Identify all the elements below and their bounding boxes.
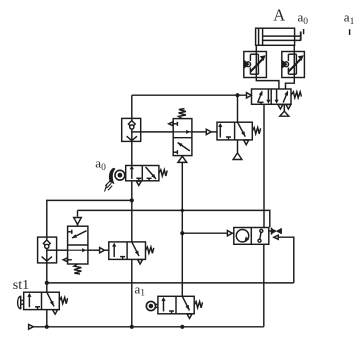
valve V4 (3/2): [217, 122, 252, 140]
wire riser a0 valve to junction: [131, 181, 133, 242]
wire box1 to valve V1: [141, 131, 174, 133]
wire riser box1 to a0 valve: [131, 141, 133, 165]
spring valve V4: [252, 128, 260, 134]
exhaust triangle valve U5 left: [278, 105, 283, 110]
pilot triangle valve V2 (top): [74, 218, 82, 225]
pilot triangle valve V4: [206, 129, 211, 134]
node junction bottom rail x131: [130, 325, 134, 329]
wire bottom rail: [33, 326, 263, 328]
svg-text:a1: a1: [344, 10, 355, 27]
spring valve V3: [146, 247, 154, 253]
quick exhaust valve box1: [122, 118, 141, 141]
node junction pilot/V4: [235, 93, 239, 97]
wire valve U5 bottom to counter: [263, 104, 265, 227]
exhaust triangle valve a1: [187, 314, 192, 318]
wire rail y283: [47, 282, 294, 284]
supply triangle valve V1: [178, 156, 187, 162]
supply triangle valve V4: [233, 153, 242, 160]
wire V2 output to V3 pilot: [88, 249, 100, 251]
exhaust triangle valve V3: [138, 260, 143, 264]
wire st1 bottom to rail: [46, 310, 48, 327]
node junction rail283 / left riser: [45, 281, 49, 285]
pilot triangle counter right: [274, 235, 278, 239]
supply triangle valve U5: [280, 104, 289, 116]
node junction riser x182 / counter pilot: [180, 231, 184, 235]
svg-text:st1: st1: [13, 278, 29, 293]
wire riser V1 supply down to a1: [181, 162, 183, 296]
wire left FCV to valve (jog): [256, 78, 279, 90]
wire to counter pilot: [182, 232, 227, 234]
wire junction down to valve V4: [237, 95, 239, 122]
wire V4 to supply triangle: [237, 140, 239, 153]
wire V1 output to V4 pilot: [192, 131, 206, 133]
svg-text:a0: a0: [298, 10, 309, 27]
wire cylinder cap port: [255, 45, 257, 51]
manual override bowtie counter: [269, 228, 281, 235]
exhaust triangle valve st1: [53, 310, 58, 314]
exhaust triangle valve U5 right: [286, 105, 291, 110]
wire counter right pilot loop: [278, 237, 294, 283]
exhaust triangle valve a0: [136, 181, 141, 185]
valve a0 (3/2 roller): [126, 165, 159, 180]
spring valve V1 (top): [179, 109, 186, 119]
wire riser V3 to bottom rail: [131, 259, 133, 326]
roller lever actuator a0: [105, 168, 125, 192]
wire main left riser top corner: [131, 95, 133, 118]
pilot triangle valve V3: [100, 248, 105, 253]
pilot triangle valve U5: [247, 93, 252, 98]
supply arrow bottom rail: [29, 324, 34, 329]
node junction left riser / branch rail: [130, 198, 134, 202]
node junction bottom rail x46: [45, 325, 49, 329]
wire cylinder rod port: [293, 45, 295, 51]
pilot triangle counter: [227, 231, 232, 236]
wire left riser box2 to st1: [46, 263, 48, 292]
flow control valve right (throttle + check): [282, 52, 305, 78]
node junction rail y210 / riser x182: [181, 209, 184, 212]
spring valve V2 (bottom): [74, 264, 81, 274]
svg-text:A: A: [273, 5, 285, 24]
node junction bottom rail x182: [180, 325, 184, 329]
spring valve a1: [194, 302, 202, 308]
quick exhaust valve box2: [38, 237, 57, 263]
valve V1 (3/2 pilot, spring top, vertical): [169, 119, 192, 156]
wire box2 to valve V2: [57, 249, 68, 251]
valve a1 (3/2 roller): [158, 296, 194, 314]
wire pilot line to valve U5: [132, 94, 247, 96]
valve st1 (3/2 push button): [24, 292, 60, 309]
valve V2 (3/2 pilot, spring bottom, vertical): [63, 226, 88, 264]
spring valve st1: [59, 297, 67, 303]
exhaust triangle valve V4: [244, 140, 249, 145]
a0 position tick: [303, 29, 305, 34]
spring valve U5: [291, 92, 301, 98]
wire counter bottom down: [263, 244, 265, 326]
directional valve 4/2 U5: [252, 89, 292, 104]
push button actuator st1: [18, 296, 24, 310]
wire right FCV to valve (jog): [286, 78, 295, 90]
svg-text:a1: a1: [135, 281, 146, 298]
valve V3 (3/2): [109, 242, 146, 260]
wire rail y210: [78, 210, 270, 227]
roller actuator a1: [146, 301, 158, 310]
spring valve a0: [159, 170, 167, 176]
counter unit: [234, 228, 269, 245]
wire branch rail y200: [47, 200, 132, 237]
svg-text:a0: a0: [95, 156, 106, 173]
flow control valve left (throttle + check): [244, 52, 267, 78]
a1 position tick: [349, 29, 351, 35]
cylinder A body: [256, 28, 301, 45]
